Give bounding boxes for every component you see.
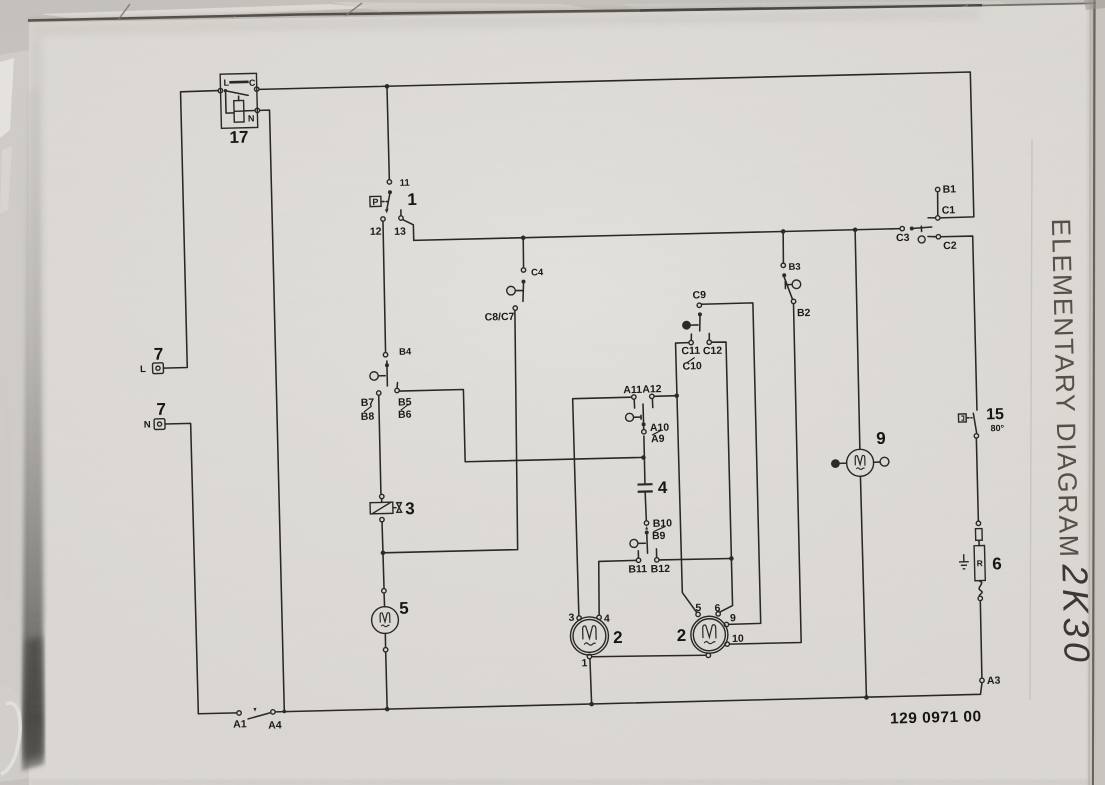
svg-text:C9: C9 (692, 289, 706, 301)
svg-text:2K30: 2K30 (1054, 563, 1098, 667)
svg-text:6: 6 (992, 554, 1002, 573)
svg-text:C1: C1 (942, 204, 956, 216)
svg-text:3: 3 (568, 612, 574, 624)
svg-text:C12: C12 (703, 345, 723, 357)
svg-text:5: 5 (695, 602, 701, 614)
svg-text:C2: C2 (943, 240, 957, 252)
svg-text:5: 5 (399, 599, 409, 618)
svg-text:1: 1 (581, 657, 587, 669)
svg-text:C8/C7: C8/C7 (485, 311, 515, 324)
svg-text:B12: B12 (651, 563, 671, 575)
svg-text:15: 15 (986, 406, 1004, 423)
svg-text:13: 13 (394, 226, 406, 238)
svg-text:17: 17 (229, 128, 248, 147)
svg-text:9: 9 (730, 612, 736, 624)
svg-text:4: 4 (604, 613, 610, 625)
svg-text:B11: B11 (628, 563, 647, 575)
svg-text:C3: C3 (896, 232, 910, 244)
svg-text:A11: A11 (623, 384, 642, 396)
svg-text:B2: B2 (797, 307, 811, 319)
svg-text:B1: B1 (942, 183, 956, 195)
svg-text:C4: C4 (531, 267, 544, 278)
svg-text:B6: B6 (398, 409, 412, 421)
svg-text:129 0971 00: 129 0971 00 (890, 708, 982, 727)
svg-text:N: N (248, 113, 255, 123)
svg-text:10: 10 (732, 633, 744, 645)
svg-text:7: 7 (154, 345, 164, 364)
svg-text:3: 3 (405, 499, 415, 518)
svg-text:R: R (977, 558, 983, 568)
svg-text:80°: 80° (990, 423, 1004, 433)
svg-text:12: 12 (370, 226, 382, 238)
svg-text:L: L (140, 364, 146, 375)
svg-text:N: N (144, 420, 151, 431)
svg-text:11: 11 (400, 178, 411, 189)
svg-text:A1: A1 (233, 718, 247, 730)
svg-text:C10: C10 (682, 360, 702, 372)
svg-text:A4: A4 (268, 719, 282, 731)
svg-text:9: 9 (876, 429, 886, 448)
svg-text:2: 2 (677, 626, 687, 645)
svg-text:B7: B7 (361, 397, 375, 409)
svg-text:P: P (372, 197, 378, 207)
svg-text:L: L (223, 78, 229, 88)
svg-text:4: 4 (658, 478, 668, 497)
svg-text:A3: A3 (987, 675, 1001, 687)
svg-text:C: C (249, 78, 256, 88)
svg-text:2: 2 (613, 628, 623, 647)
svg-text:B8: B8 (361, 411, 375, 423)
svg-text:7: 7 (156, 400, 166, 419)
svg-text:C11: C11 (681, 345, 700, 357)
svg-text:1: 1 (407, 190, 417, 209)
svg-text:B4: B4 (399, 347, 412, 358)
svg-text:A12: A12 (642, 383, 662, 395)
svg-text:6: 6 (714, 602, 720, 614)
svg-text:B3: B3 (788, 262, 800, 273)
